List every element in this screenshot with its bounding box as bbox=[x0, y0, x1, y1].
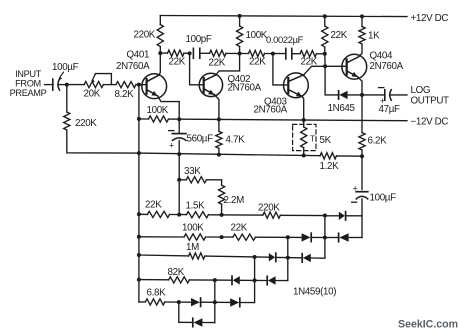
resistor 33K bbox=[186, 177, 206, 183]
svg-text:6.8K: 6.8K bbox=[147, 288, 167, 299]
wire C47 to LOG OUTPUT bbox=[390, 94, 407, 96]
transistor Q403 bbox=[284, 73, 309, 98]
junction 2.2M row215 bbox=[220, 213, 224, 217]
wire 2.2M to row215 bbox=[221, 204, 223, 214]
junction row280 node254 bbox=[253, 278, 257, 282]
diode row237 right bbox=[338, 233, 340, 241]
svg-text:100µF: 100µF bbox=[52, 62, 79, 73]
diode row256 left bbox=[275, 253, 277, 261]
wire 22Kv top bbox=[324, 16, 326, 26]
junction top rail 1K bbox=[360, 14, 364, 18]
annotation arrow 100uF bbox=[60, 72, 64, 77]
svg-text:1.2K: 1.2K bbox=[320, 161, 340, 172]
junction busA row280 bbox=[137, 278, 141, 282]
wire rowA seg3 bbox=[200, 52, 210, 54]
svg-text:100pF: 100pF bbox=[186, 34, 212, 45]
junction -12V Q401emitter bbox=[177, 117, 181, 121]
svg-text:6.2K: 6.2K bbox=[368, 136, 388, 147]
wire diode to node bbox=[325, 215, 339, 217]
wire row237 d bbox=[311, 236, 325, 238]
wire row237 a bbox=[139, 236, 184, 238]
wire output node to C 47uF bbox=[362, 94, 385, 96]
svg-text:2.2M: 2.2M bbox=[224, 195, 245, 206]
svg-text:1K: 1K bbox=[368, 31, 380, 42]
label minus 100uF bbox=[352, 201, 357, 203]
svg-text:FROM: FROM bbox=[15, 79, 41, 89]
junction row256 node254 bbox=[253, 255, 257, 259]
junction busB 33K bbox=[177, 178, 181, 182]
wire row215 b bbox=[170, 214, 187, 216]
svg-text:560µF: 560µF bbox=[187, 134, 214, 145]
wire Q402 collector bbox=[216, 54, 240, 75]
wire 8.2K to Q401 base bbox=[136, 84, 147, 86]
svg-text:+: + bbox=[353, 183, 358, 193]
svg-text:100K: 100K bbox=[147, 105, 169, 116]
diode row215 right bbox=[345, 212, 347, 220]
wire 22Kv to Q404 base node bbox=[324, 54, 326, 67]
svg-text:20K: 20K bbox=[84, 89, 101, 100]
svg-text:22K: 22K bbox=[249, 57, 266, 68]
svg-text:22K: 22K bbox=[209, 58, 226, 69]
junction busA row237 bbox=[137, 235, 141, 239]
junction busB row215 bbox=[177, 213, 181, 217]
svg-text:100K: 100K bbox=[246, 30, 268, 41]
wire Q404 base bbox=[325, 65, 347, 67]
resistor 220K collector Q401 bbox=[157, 25, 163, 47]
resistor 220K row215 bbox=[263, 212, 281, 218]
svg-text:+: + bbox=[169, 140, 174, 150]
junction node IN bbox=[65, 83, 69, 87]
wire 220K bottom bbox=[159, 47, 161, 54]
wire bus A bbox=[138, 85, 140, 119]
resistor 22K collector Q403 bbox=[322, 26, 328, 47]
resistor 1.5K bbox=[186, 212, 208, 218]
wire 6.2K to bottom rail bbox=[361, 150, 363, 156]
svg-text:2N760A: 2N760A bbox=[228, 83, 262, 94]
wire row280 c bbox=[240, 279, 267, 281]
wire 4.7K to bottom rail bbox=[218, 148, 220, 154]
wire row280 b bbox=[189, 279, 232, 281]
junction row256 node288 bbox=[286, 256, 290, 260]
label minus 560uF bbox=[169, 130, 174, 132]
wire Q404 collector bbox=[359, 44, 362, 57]
junction Q401 base node bbox=[137, 83, 141, 87]
resistor 100K row237 bbox=[184, 234, 206, 240]
svg-text:INPUT: INPUT bbox=[15, 69, 42, 79]
junction rail 4.7K bbox=[217, 153, 221, 157]
wire row237 from corner bbox=[349, 237, 362, 239]
wire Q401emitter node to C560 bbox=[178, 119, 180, 133]
wire row215 d bbox=[280, 214, 325, 216]
resistor 22K a bbox=[168, 50, 185, 56]
wire diode237 to node bbox=[325, 237, 339, 239]
svg-text:LOG: LOG bbox=[411, 85, 431, 96]
wire row280 a bbox=[139, 279, 169, 281]
transistor Q401 bbox=[142, 74, 167, 99]
diode row302 left bbox=[200, 298, 202, 306]
svg-text:22K: 22K bbox=[145, 200, 162, 211]
svg-text:2N760A: 2N760A bbox=[116, 61, 150, 72]
junction -12V Q402emitter bbox=[217, 117, 221, 121]
wire node IN to R 20K bbox=[67, 84, 84, 86]
diode loop bbox=[192, 318, 194, 326]
wire loop bottom b bbox=[202, 322, 214, 324]
wire 220K top bbox=[159, 16, 161, 25]
resistor 20K potentiometer bbox=[84, 82, 103, 88]
wire Q403 base drop bbox=[273, 54, 288, 85]
wire rowA seg2 bbox=[184, 52, 190, 54]
junction -12V Q403emitter bbox=[302, 118, 306, 122]
diode 1N645 bbox=[338, 91, 340, 99]
wire Q402 emitter bbox=[214, 95, 219, 120]
resistor 1.2K bbox=[320, 153, 337, 159]
wire Q401 collector bbox=[159, 53, 161, 75]
svg-text:−12V DC: −12V DC bbox=[411, 117, 449, 128]
svg-text:22K: 22K bbox=[331, 30, 348, 41]
resistor 22K row215 bbox=[147, 211, 169, 217]
wire Q403 collector bbox=[304, 66, 325, 74]
junction rail 5K bbox=[302, 154, 306, 158]
power rail +12VDC bbox=[160, 16, 407, 17]
capacitor 0.0022uF bbox=[285, 48, 287, 59]
wire row256 b bbox=[205, 256, 269, 257]
junction row302 node215 bbox=[213, 300, 217, 304]
wire 5K to bottom rail bbox=[303, 148, 305, 156]
wire bus B rail to 33K bbox=[178, 154, 180, 180]
junction row237 node288 bbox=[286, 235, 290, 239]
wire row256 d bbox=[311, 257, 325, 259]
wire 288 vertical bbox=[287, 237, 289, 280]
wire 22Kv bottom bbox=[324, 47, 326, 54]
resistor 8.2K bbox=[116, 82, 136, 88]
wire row302 c bbox=[240, 256, 255, 303]
diode row280 right bbox=[266, 276, 268, 284]
junction Q401 collector node bbox=[158, 51, 162, 55]
wire bus B 33K to row215 bbox=[178, 180, 180, 215]
junction row215 node bbox=[323, 214, 327, 218]
svg-text:OUTPUT: OUTPUT bbox=[411, 95, 450, 106]
wire row215 c bbox=[208, 214, 262, 216]
wire Q402emitter to 4.7K bbox=[218, 119, 220, 131]
wire rowA seg7 bbox=[317, 53, 325, 55]
wire row280 d bbox=[276, 280, 288, 282]
svg-text:2N760A: 2N760A bbox=[254, 105, 288, 116]
resistor 220K input bbox=[64, 112, 70, 130]
wire row256 c bbox=[276, 256, 302, 258]
diode row237 mid bbox=[310, 233, 312, 241]
pot 20K wiper loop wire bbox=[95, 74, 111, 85]
wire 20K to 8.2K bbox=[103, 84, 116, 86]
resistor 1K collector Q404 bbox=[359, 27, 365, 45]
capacitor 100uF input bbox=[52, 79, 54, 90]
resistor 82K bbox=[169, 277, 190, 283]
wire busA corner to 6.8K bbox=[139, 301, 146, 303]
svg-text:Q401: Q401 bbox=[127, 50, 150, 61]
svg-text:47µF: 47µF bbox=[379, 104, 400, 115]
wire Q404 base node down bbox=[325, 66, 339, 95]
wire 1N645 to output node bbox=[348, 94, 362, 96]
resistor 6.8K bbox=[145, 299, 164, 305]
wire rail to C100uF bbox=[361, 156, 363, 189]
svg-text:1M: 1M bbox=[186, 242, 199, 253]
capacitor 100uF bbox=[356, 191, 368, 193]
wire input to C401 bbox=[45, 84, 54, 86]
junction rail 6.2K bbox=[360, 154, 364, 158]
thermistor box dashed bbox=[293, 124, 316, 150]
power rail -12VDC bbox=[139, 118, 149, 120]
wire rowA seg6 bbox=[292, 53, 300, 55]
wire row237 c bbox=[255, 236, 301, 238]
resistor 22K row237 bbox=[233, 234, 256, 240]
svg-text:2N760A: 2N760A bbox=[370, 61, 404, 72]
svg-text:PREAMP: PREAMP bbox=[10, 88, 47, 98]
junction rail 560uF bbox=[177, 152, 181, 156]
svg-text:T: T bbox=[310, 134, 316, 144]
wire row256 a bbox=[139, 254, 189, 257]
svg-text:220K: 220K bbox=[258, 203, 280, 214]
wire loop bottom a bbox=[179, 321, 193, 323]
resistor 22K d bbox=[300, 51, 317, 57]
wire loop left bbox=[178, 302, 180, 322]
wire 362 down to row237 bbox=[361, 216, 363, 238]
resistor 2.2M bbox=[219, 185, 225, 204]
wire C100uF down bbox=[361, 199, 363, 216]
wire rowA seg5 bbox=[265, 53, 287, 55]
svg-text:33K: 33K bbox=[184, 166, 201, 177]
resistor 100K collector Q402 bbox=[237, 26, 243, 47]
wire Q403 emitter bbox=[302, 96, 304, 119]
resistor 5K thermistor bbox=[301, 127, 307, 148]
wire rowA seg4 bbox=[226, 52, 249, 54]
svg-text:22K: 22K bbox=[231, 223, 248, 234]
junction node rowA-100K bbox=[238, 52, 242, 56]
wire 215 vertical bbox=[214, 280, 216, 322]
svg-text:8.2K: 8.2K bbox=[115, 89, 135, 100]
junction output node bbox=[360, 93, 364, 97]
svg-text:100K: 100K bbox=[182, 223, 204, 234]
junction node rowA-Q403base bbox=[271, 52, 275, 56]
wire 33K row a bbox=[179, 179, 186, 181]
svg-text:1N459(10): 1N459(10) bbox=[293, 287, 336, 298]
wire C560 to bottom rail bbox=[178, 141, 180, 154]
wire 100K top bbox=[239, 16, 241, 26]
wire 220K to bottom rail bbox=[67, 130, 139, 153]
svg-text:82K: 82K bbox=[168, 267, 185, 278]
junction busA row215 bbox=[137, 212, 141, 216]
wire row215 a bbox=[139, 213, 148, 215]
wire row302 b bbox=[201, 301, 231, 303]
wire node IN down bbox=[66, 85, 68, 112]
diode row256 right bbox=[301, 254, 303, 262]
wire 33K row b bbox=[206, 180, 221, 185]
diode row302 right bbox=[239, 298, 241, 306]
junction busA row256 bbox=[137, 253, 141, 257]
wire output node to 6.2K bbox=[361, 95, 363, 133]
capacitor 100pF bbox=[192, 48, 194, 58]
junction top rail 100K bbox=[238, 14, 242, 18]
svg-text:1N645: 1N645 bbox=[328, 103, 356, 114]
transistor Q404 bbox=[342, 54, 367, 79]
wire 324 down bbox=[324, 216, 326, 238]
wire rowA seg1 bbox=[160, 52, 167, 54]
svg-text:5K: 5K bbox=[320, 135, 332, 146]
svg-text:1.5K: 1.5K bbox=[186, 201, 206, 212]
resistor 4.7K bbox=[216, 131, 222, 148]
wire bottom rail seg2 bbox=[337, 155, 363, 157]
pot 20K wiper arrow bbox=[92, 74, 95, 80]
resistor 1M bbox=[189, 253, 205, 259]
junction 2.2M row237 bbox=[220, 235, 224, 239]
wire bottom rail seg1 bbox=[139, 153, 320, 156]
resistor 22K b bbox=[210, 50, 227, 56]
wire row237 b bbox=[206, 236, 233, 238]
svg-text:4.7K: 4.7K bbox=[226, 135, 246, 146]
wire C401 to node IN bbox=[59, 84, 67, 86]
junction node rowA-22Kv bbox=[323, 52, 327, 56]
capacitor 47uF output bbox=[384, 90, 386, 101]
svg-text:+12V DC: +12V DC bbox=[411, 13, 449, 24]
wire Q403emitter to 5K bbox=[303, 120, 305, 127]
junction row237 node324 bbox=[323, 236, 327, 240]
resistor 6.2K bbox=[359, 133, 365, 150]
svg-text:0.0022µF: 0.0022µF bbox=[266, 34, 304, 45]
junction row280 node215 bbox=[213, 278, 217, 282]
wire row215 from corner bbox=[346, 215, 362, 217]
junction -12V busA bbox=[137, 117, 141, 121]
junction top rail 22Kv bbox=[323, 14, 327, 18]
transistor Q402 bbox=[199, 73, 222, 96]
diode row280 left bbox=[231, 276, 233, 284]
resistor 22K c bbox=[249, 50, 265, 56]
wire Q401 emitter bbox=[158, 96, 180, 119]
resistor 100K emitter Q401 bbox=[149, 116, 169, 122]
wire 100K bottom bbox=[239, 47, 241, 54]
wire Q404 emitter bbox=[358, 77, 362, 95]
svg-text:100µF: 100µF bbox=[370, 193, 397, 204]
wire Q402 base drop bbox=[190, 53, 204, 84]
svg-text:22K: 22K bbox=[169, 57, 186, 68]
junction node rowA-100pF bbox=[188, 51, 192, 55]
wire 1K top bbox=[361, 16, 363, 26]
capacitor 560uF bbox=[172, 133, 186, 135]
junction rail busA bbox=[137, 151, 141, 155]
wire row302 a bbox=[165, 301, 191, 303]
svg-text:220K: 220K bbox=[75, 118, 97, 129]
svg-text:SeekIC.com: SeekIC.com bbox=[398, 319, 458, 331]
svg-text:220K: 220K bbox=[134, 30, 156, 41]
label minus 47uF bbox=[379, 87, 384, 89]
junction row302 node178 bbox=[177, 300, 181, 304]
junction Q404 base node bbox=[323, 64, 327, 68]
